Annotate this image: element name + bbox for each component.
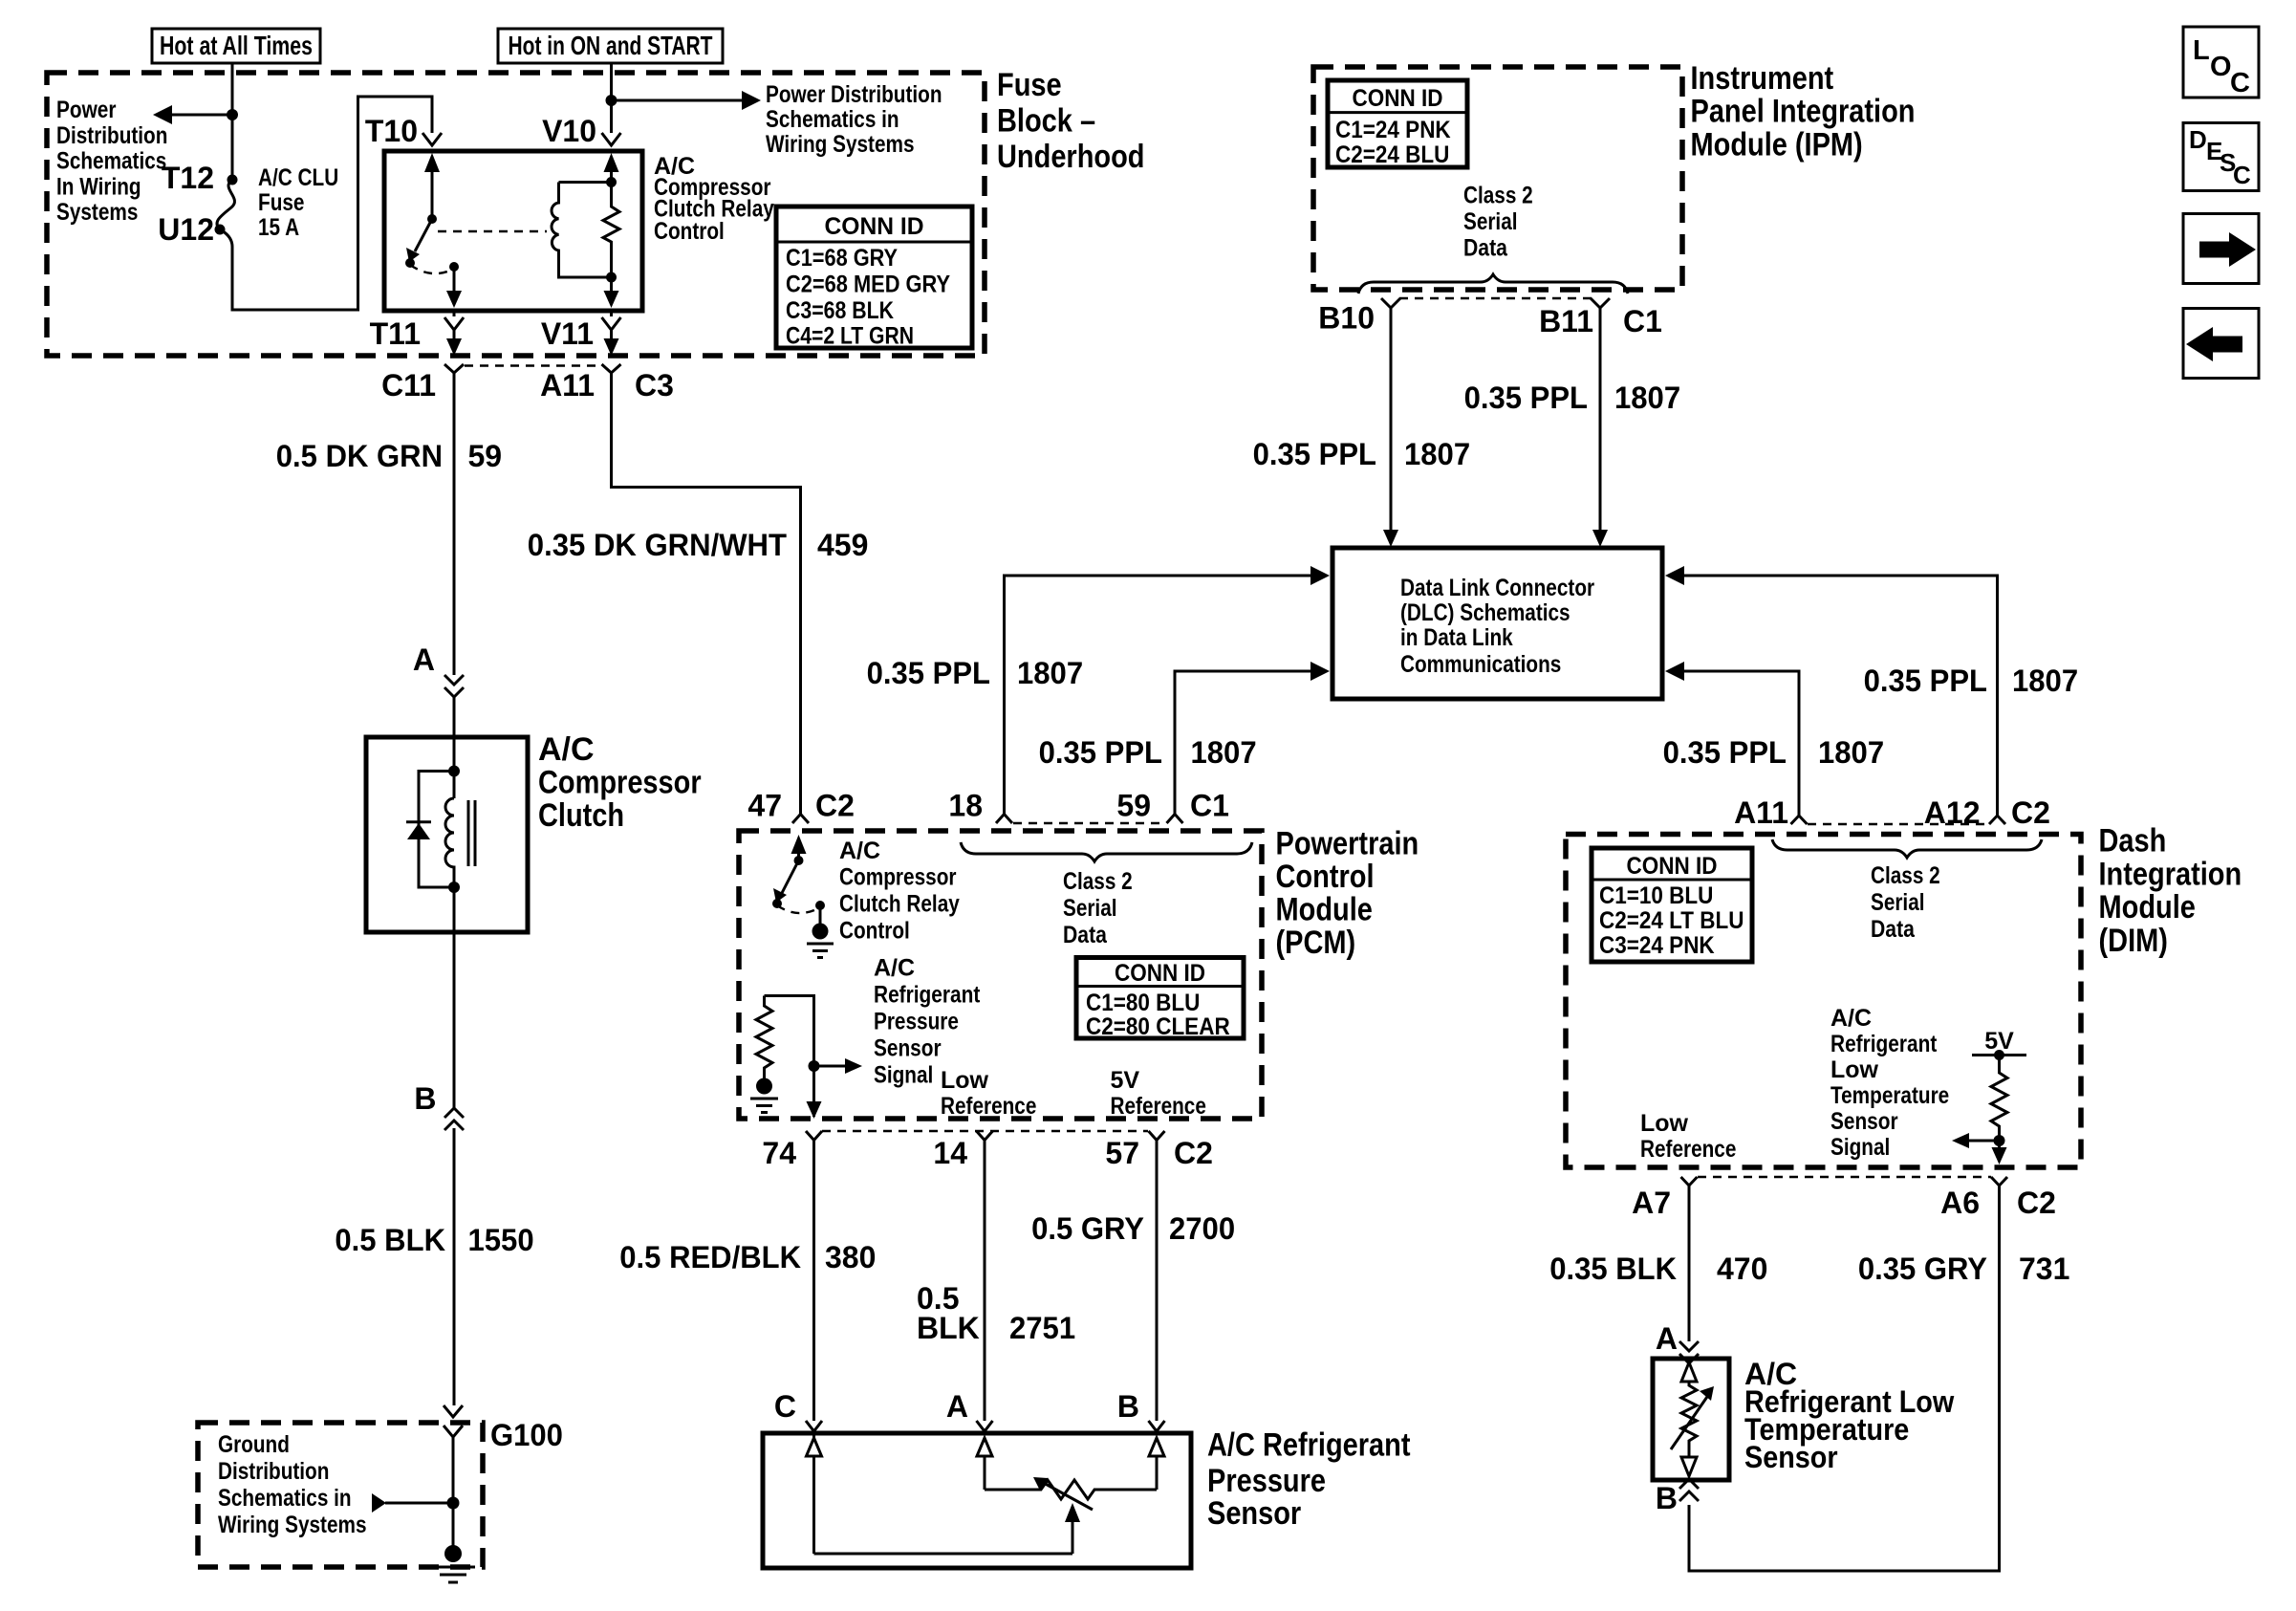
svg-text:Integration: Integration bbox=[2099, 856, 2242, 892]
svg-text:C2=24 BLU: C2=24 BLU bbox=[1335, 142, 1449, 168]
svg-text:CONN ID: CONN ID bbox=[1115, 960, 1205, 987]
svg-text:0.35 DK GRN/WHT: 0.35 DK GRN/WHT bbox=[528, 528, 788, 562]
svg-text:57: 57 bbox=[1105, 1136, 1139, 1170]
svg-text:A11: A11 bbox=[540, 368, 595, 403]
svg-text:C: C bbox=[2230, 68, 2250, 98]
svg-text:Panel Integration: Panel Integration bbox=[1691, 94, 1916, 130]
IPM Class 2 Serial Data text bbox=[1463, 183, 1533, 262]
svg-text:Reference: Reference bbox=[1111, 1093, 1206, 1120]
ground connector G100 chevrons bbox=[444, 1405, 463, 1554]
connector pin B chevron (pressure sensor) bbox=[1149, 1421, 1165, 1431]
svg-text:C2: C2 bbox=[1174, 1136, 1213, 1170]
svg-text:Powertrain: Powertrain bbox=[1276, 826, 1419, 862]
svg-text:BLK: BLK bbox=[917, 1311, 980, 1345]
sensor pin A internal lead bbox=[977, 1438, 992, 1490]
svg-text:A/C: A/C bbox=[839, 838, 880, 864]
module label Instrument Panel Integration Module (IPM) bbox=[1691, 60, 1916, 163]
svg-text:Data: Data bbox=[1063, 922, 1108, 948]
svg-text:A/C Refrigerant: A/C Refrigerant bbox=[1207, 1427, 1411, 1464]
svg-text:Dash: Dash bbox=[2099, 823, 2167, 860]
DIM CONN ID box bbox=[1592, 848, 1752, 962]
connector pin 57 chevron bbox=[1149, 1131, 1165, 1141]
svg-text:0.35 GRY: 0.35 GRY bbox=[1858, 1252, 1987, 1286]
DIM top connector line A11-A12 (thin dashed) bbox=[1808, 823, 1989, 825]
svg-text:2751: 2751 bbox=[1009, 1311, 1075, 1345]
connector pin A6 chevron bbox=[1991, 1177, 2007, 1186]
connector pin 18 chevron bbox=[996, 815, 1012, 824]
svg-text:74: 74 bbox=[762, 1136, 796, 1170]
DIM pull-up resistor bbox=[1991, 1056, 2007, 1137]
svg-text:Serial: Serial bbox=[1463, 208, 1518, 235]
svg-text:Distribution: Distribution bbox=[56, 122, 167, 149]
svg-text:0.35 PPL: 0.35 PPL bbox=[1464, 381, 1588, 415]
connector pin B10 chevron bbox=[1381, 298, 1400, 308]
wire B11 to DLC (0.35 PPL 1807) bbox=[1592, 308, 1608, 547]
svg-text:Serial: Serial bbox=[1063, 895, 1117, 922]
svg-text:0.35 PPL: 0.35 PPL bbox=[1864, 664, 1987, 698]
svg-text:Ground: Ground bbox=[218, 1431, 290, 1458]
svg-text:Sensor: Sensor bbox=[874, 1035, 942, 1062]
inline connector A double chevron (low temp sensor) bbox=[1679, 1341, 1699, 1363]
sensor internal bottom wire bbox=[814, 1553, 1073, 1556]
svg-text:C2: C2 bbox=[815, 789, 855, 823]
svg-text:U12: U12 bbox=[158, 212, 214, 247]
wire A11/C3 to PCM pin 47 (0.35 DK GRN/WHT 459) bbox=[612, 373, 801, 814]
svg-text:731: 731 bbox=[2019, 1252, 2069, 1286]
label A/C Refrigerant Pressure Sensor bbox=[1207, 1427, 1411, 1533]
svg-text:Class 2: Class 2 bbox=[1063, 868, 1133, 895]
connector pin 59 chevron bbox=[1167, 815, 1183, 824]
svg-text:Block –: Block – bbox=[997, 103, 1095, 140]
svg-text:Power Distribution: Power Distribution bbox=[766, 81, 942, 108]
svg-text:59: 59 bbox=[468, 439, 503, 473]
fuse block CONN ID box bbox=[776, 207, 972, 350]
svg-text:C1: C1 bbox=[1623, 304, 1662, 338]
IPM connector line B10-B11 (thin dashed) bbox=[1399, 297, 1592, 299]
A/C Compressor Clutch box bbox=[366, 737, 528, 932]
svg-text:1807: 1807 bbox=[1191, 735, 1257, 770]
connector pin 74 chevron bbox=[806, 1131, 822, 1141]
svg-text:0.35 PPL: 0.35 PPL bbox=[867, 656, 990, 690]
svg-text:Pressure: Pressure bbox=[1207, 1463, 1326, 1499]
svg-text:Reference: Reference bbox=[1640, 1136, 1736, 1163]
A/C Refrigerant Low Temperature Sensor box bbox=[1653, 1359, 1729, 1480]
svg-text:C1=80 BLU: C1=80 BLU bbox=[1086, 990, 1200, 1016]
connector pin V10 chevron bbox=[602, 133, 621, 145]
svg-text:C2=68 MED GRY: C2=68 MED GRY bbox=[786, 272, 950, 298]
svg-text:Data: Data bbox=[1463, 235, 1508, 262]
connector C11 chevron bbox=[444, 364, 464, 373]
relay switch closed-position contact and output leg bbox=[410, 262, 462, 308]
connector pin T11 chevron and exit arrow bbox=[444, 311, 464, 356]
wire DIM pin A12 to DLC (0.35 PPL 1807) bbox=[1665, 566, 1998, 816]
svg-text:A: A bbox=[413, 642, 435, 677]
connector pin 47 chevron bbox=[792, 815, 809, 824]
svg-text:Reference: Reference bbox=[941, 1093, 1036, 1120]
svg-text:0.35 PPL: 0.35 PPL bbox=[1663, 735, 1787, 770]
svg-text:CONN ID: CONN ID bbox=[1353, 85, 1443, 112]
wire 0.5 RED/BLK 380 (pin 74 to sensor C) bbox=[812, 1141, 815, 1422]
svg-text:Wiring Systems: Wiring Systems bbox=[766, 131, 915, 158]
DIM signal node and left arrow bbox=[1952, 1133, 2007, 1165]
svg-text:C1=68 GRY: C1=68 GRY bbox=[786, 245, 898, 272]
text Power Distribution Schematics In Wiring Systems (left) bbox=[56, 97, 167, 226]
svg-text:Sensor: Sensor bbox=[1744, 1440, 1838, 1474]
svg-text:CONN ID: CONN ID bbox=[1627, 853, 1718, 880]
PCM resistor internal ground bbox=[750, 1075, 778, 1113]
icon LOC bbox=[2183, 27, 2259, 98]
svg-text:1807: 1807 bbox=[2012, 664, 2078, 698]
svg-text:A/C: A/C bbox=[874, 955, 915, 982]
svg-text:Distribution: Distribution bbox=[218, 1458, 329, 1485]
svg-text:T11: T11 bbox=[370, 316, 421, 351]
svg-text:A/C: A/C bbox=[1830, 1005, 1872, 1032]
icon forward arrow bbox=[2183, 214, 2259, 284]
svg-text:Communications: Communications bbox=[1400, 651, 1561, 678]
svg-text:Compressor: Compressor bbox=[538, 765, 702, 801]
relay mechanical link (dashed) bbox=[438, 230, 547, 232]
svg-text:Module (IPM): Module (IPM) bbox=[1691, 126, 1863, 163]
inline connector B double chevron (low temp sensor) bbox=[1679, 1479, 1699, 1501]
svg-text:Hot at All Times: Hot at All Times bbox=[160, 31, 313, 60]
junction node V10 bbox=[606, 95, 617, 106]
svg-text:Class 2: Class 2 bbox=[1871, 862, 1940, 889]
svg-text:T12: T12 bbox=[162, 161, 214, 195]
sensor pin B internal lead bbox=[1149, 1438, 1164, 1490]
module label Powertrain Control Module (PCM) bbox=[1276, 826, 1419, 962]
relay coil branch top leg with up arrow bbox=[604, 153, 619, 187]
PCM driver internal ground bbox=[807, 905, 834, 958]
svg-text:Control: Control bbox=[1276, 859, 1375, 895]
svg-text:C1=10 BLU: C1=10 BLU bbox=[1599, 882, 1713, 909]
clutch coil core bars bbox=[468, 800, 475, 866]
svg-text:C3: C3 bbox=[635, 368, 674, 403]
label Low Reference (DIM) bbox=[1640, 1110, 1736, 1163]
relay switch common leg with up arrow bbox=[424, 153, 440, 224]
wire pin 74 inside PCM (sensor signal) bbox=[765, 996, 863, 1120]
DIM Class 2 Serial Data text bbox=[1871, 862, 1940, 943]
svg-text:A12: A12 bbox=[1924, 795, 1981, 830]
svg-text:In Wiring: In Wiring bbox=[56, 173, 141, 200]
svg-text:5V: 5V bbox=[1111, 1067, 1140, 1094]
svg-text:Schematics: Schematics bbox=[56, 148, 166, 175]
svg-text:Sensor: Sensor bbox=[1207, 1495, 1301, 1532]
svg-text:V11: V11 bbox=[541, 316, 594, 351]
svg-text:0.35 PPL: 0.35 PPL bbox=[1039, 735, 1162, 770]
wire battery feed from Hot at All Times bbox=[231, 63, 234, 180]
svg-text:C: C bbox=[774, 1389, 796, 1424]
svg-text:Schematics in: Schematics in bbox=[766, 106, 899, 133]
svg-text:C2=24 LT BLU: C2=24 LT BLU bbox=[1599, 907, 1744, 934]
connector line 18-59 (thin dashed) bbox=[1013, 822, 1165, 824]
PCM relay driver switch bbox=[772, 835, 825, 913]
connector A11 chevron bbox=[602, 364, 621, 373]
svg-text:B11: B11 bbox=[1539, 304, 1593, 338]
module label Fuse Block - Underhood bbox=[997, 67, 1145, 175]
svg-text:1807: 1807 bbox=[1614, 381, 1680, 415]
label A/C Refrigerant Low Temperature Sensor Signal (DIM) bbox=[1830, 1005, 1949, 1161]
svg-text:Signal: Signal bbox=[874, 1062, 933, 1089]
svg-text:A/C: A/C bbox=[538, 731, 595, 768]
svg-text:C2=80 CLEAR: C2=80 CLEAR bbox=[1086, 1013, 1230, 1040]
clutch coil feed wire and node bbox=[448, 737, 460, 798]
wire 0.35 GRY 731 (A6 to sensor B loop) bbox=[1689, 1186, 2000, 1571]
module label Dash Integration Module (DIM) bbox=[2099, 823, 2242, 960]
svg-text:Instrument: Instrument bbox=[1691, 60, 1834, 97]
svg-text:C: C bbox=[2233, 161, 2251, 189]
inline connector B double chevron bbox=[444, 1108, 464, 1405]
svg-text:Low: Low bbox=[1640, 1110, 1689, 1137]
IPM brace (class 2 serial data bus) bbox=[1358, 274, 1628, 294]
label A/C Refrigerant Pressure Sensor Signal bbox=[874, 955, 981, 1089]
svg-text:Hot in ON and START: Hot in ON and START bbox=[509, 31, 713, 60]
svg-text:A/C CLU: A/C CLU bbox=[258, 164, 338, 191]
off-page arrow to Power Distribution (left) bbox=[153, 105, 232, 124]
svg-text:1807: 1807 bbox=[1017, 656, 1083, 690]
DIM dashed outline (Dash Integration Module) bbox=[1566, 835, 2081, 1168]
text Ground Distribution Schematics in Wiring Systems bbox=[218, 1431, 367, 1538]
wire 0.5 DK GRN 59 (C11 to A/C compressor clutch) bbox=[453, 373, 456, 675]
svg-text:CONN ID: CONN ID bbox=[825, 213, 924, 240]
svg-text:15 A: 15 A bbox=[258, 214, 299, 241]
fuse A/C CLU 15 A (element) bbox=[215, 175, 238, 248]
svg-text:C1=24 PNK: C1=24 PNK bbox=[1335, 117, 1451, 143]
connector pin A11 chevron (DIM) bbox=[1791, 816, 1808, 824]
relay K: A/C Compressor Clutch Relay box bbox=[384, 151, 642, 311]
svg-text:0.5 BLK: 0.5 BLK bbox=[335, 1223, 445, 1257]
svg-text:Serial: Serial bbox=[1871, 889, 1925, 916]
PCM bottom connector line 74-14-57 (thin dashed) bbox=[822, 1130, 1148, 1132]
off-page arrow to Power Distribution (right) bbox=[612, 91, 762, 110]
svg-text:Class 2: Class 2 bbox=[1463, 183, 1533, 209]
wire DIM pin A11 to DLC (0.35 PPL 1807) bbox=[1665, 662, 1799, 816]
PCM Class 2 Serial Data text bbox=[1063, 868, 1133, 948]
svg-text:A: A bbox=[1656, 1321, 1678, 1356]
svg-text:C3=24 PNK: C3=24 PNK bbox=[1599, 932, 1715, 959]
svg-text:Underhood: Underhood bbox=[997, 139, 1145, 175]
svg-text:459: 459 bbox=[817, 528, 868, 562]
relay coil winding bbox=[552, 183, 611, 278]
svg-text:Control: Control bbox=[654, 218, 725, 245]
svg-text:Data: Data bbox=[1871, 916, 1916, 943]
svg-text:Low: Low bbox=[1830, 1056, 1879, 1083]
svg-text:0.5 RED/BLK: 0.5 RED/BLK bbox=[619, 1240, 801, 1274]
inline connector A double chevron bbox=[444, 675, 464, 737]
svg-text:Fuse: Fuse bbox=[258, 189, 305, 216]
svg-text:O: O bbox=[2210, 52, 2232, 82]
svg-text:(DIM): (DIM) bbox=[2099, 923, 2168, 959]
wire 0.35 BLK 470 (A7 to low temp sensor A) bbox=[1688, 1186, 1691, 1341]
svg-text:B: B bbox=[1117, 1389, 1139, 1424]
label A/C CLU Fuse 15 A bbox=[258, 164, 338, 241]
svg-text:L: L bbox=[2193, 35, 2210, 66]
svg-text:Power: Power bbox=[56, 97, 117, 123]
svg-text:Pressure: Pressure bbox=[874, 1009, 959, 1035]
svg-text:380: 380 bbox=[825, 1240, 876, 1274]
svg-text:A: A bbox=[946, 1389, 968, 1424]
wire 0.5 BLK 2751 (pin 14 to sensor A) bbox=[984, 1141, 986, 1422]
icon DESC bbox=[2183, 123, 2259, 191]
svg-text:Fuse: Fuse bbox=[997, 67, 1062, 103]
svg-text:C4=2 LT GRN: C4=2 LT GRN bbox=[786, 323, 914, 350]
svg-text:V10: V10 bbox=[542, 114, 596, 148]
clutch coil winding bbox=[445, 798, 454, 887]
svg-text:Module: Module bbox=[1276, 892, 1373, 928]
connector pin A12 chevron (DIM) bbox=[1989, 816, 2005, 824]
svg-text:Wiring Systems: Wiring Systems bbox=[218, 1512, 367, 1538]
clutch coil bottom node bbox=[448, 882, 460, 893]
potentiometer element (pressure sensor) bbox=[985, 1477, 1157, 1510]
icon back arrow bbox=[2183, 309, 2259, 379]
svg-text:0.5 GRY: 0.5 GRY bbox=[1031, 1211, 1144, 1246]
5V supply symbol (DIM) bbox=[1972, 1028, 2026, 1060]
svg-text:Temperature: Temperature bbox=[1830, 1082, 1949, 1109]
svg-text:C2: C2 bbox=[2017, 1186, 2056, 1220]
svg-text:Low: Low bbox=[941, 1067, 989, 1094]
svg-text:59: 59 bbox=[1116, 789, 1151, 823]
wire B10 to DLC (0.35 PPL 1807) bbox=[1383, 308, 1398, 547]
svg-text:2700: 2700 bbox=[1169, 1211, 1235, 1246]
flag box "Hot in ON and START" bbox=[498, 29, 723, 63]
connector pin A7 chevron bbox=[1681, 1177, 1698, 1186]
PCM pressure sensor pull-up resistor bbox=[756, 996, 772, 1076]
text Power Distribution Schematics in Wiring Systems (right) bbox=[766, 81, 942, 158]
wire PCM pin 59 to DLC (class 2 serial data) bbox=[1175, 662, 1330, 815]
flag box "Hot at All Times" bbox=[152, 29, 320, 63]
svg-text:C11: C11 bbox=[381, 368, 436, 403]
svg-text:(DLC) Schematics: (DLC) Schematics bbox=[1400, 599, 1570, 626]
connector pin B11 chevron bbox=[1591, 298, 1610, 308]
svg-text:Compressor: Compressor bbox=[839, 864, 957, 891]
label 0.5 BLK (two lines) bbox=[917, 1281, 980, 1345]
svg-text:470: 470 bbox=[1717, 1252, 1767, 1286]
label A/C Refrigerant Low Temperature Sensor bbox=[1744, 1357, 1954, 1474]
svg-text:Systems: Systems bbox=[56, 199, 138, 226]
label A/C Compressor Clutch bbox=[538, 731, 702, 834]
svg-text:1550: 1550 bbox=[468, 1223, 534, 1257]
svg-text:B: B bbox=[1656, 1481, 1678, 1515]
fuse block dashed outline (Fuse Block - Underhood) bbox=[47, 73, 985, 356]
PCM CONN ID box bbox=[1076, 958, 1244, 1041]
ground reference arrow into G100 wire bbox=[372, 1493, 460, 1513]
svg-text:B10: B10 bbox=[1318, 301, 1375, 336]
svg-text:Sensor: Sensor bbox=[1830, 1108, 1898, 1135]
svg-text:A11: A11 bbox=[1734, 795, 1788, 830]
svg-text:B: B bbox=[414, 1081, 436, 1116]
wire clutch to B connector bbox=[453, 887, 456, 1109]
svg-text:14: 14 bbox=[933, 1136, 967, 1170]
connector pin T10 chevron bbox=[422, 133, 442, 145]
svg-text:G100: G100 bbox=[490, 1418, 563, 1452]
DIM brace (class 2 serial data bus) bbox=[1772, 839, 2042, 858]
wire 0.5 GRY 2700 (pin 57 to sensor B) bbox=[1156, 1141, 1159, 1422]
svg-text:0.5 DK GRN: 0.5 DK GRN bbox=[276, 439, 443, 473]
potentiometer wiper arrow bbox=[1065, 1503, 1080, 1554]
svg-text:Data Link Connector: Data Link Connector bbox=[1400, 575, 1594, 601]
svg-text:Clutch: Clutch bbox=[538, 797, 624, 834]
wire PCM pin 18 to DLC (class 2 serial data) bbox=[1005, 566, 1331, 815]
thermistor element (low temp sensor) bbox=[1671, 1362, 1714, 1476]
wire fuse output to relay pin T10 bbox=[232, 97, 432, 310]
svg-text:Refrigerant: Refrigerant bbox=[1830, 1031, 1938, 1057]
svg-text:(PCM): (PCM) bbox=[1276, 925, 1356, 961]
svg-text:18: 18 bbox=[948, 789, 983, 823]
svg-text:1807: 1807 bbox=[1818, 735, 1884, 770]
svg-text:Signal: Signal bbox=[1830, 1134, 1890, 1161]
ground symbol G100 bbox=[431, 1545, 475, 1582]
svg-text:C1: C1 bbox=[1190, 789, 1229, 823]
IPM dashed outline (Instrument Panel Integration Module) bbox=[1313, 67, 1682, 290]
junction node on battery feed bbox=[227, 109, 238, 120]
svg-text:Schematics in: Schematics in bbox=[218, 1485, 352, 1512]
DIM bottom connector line A7-A6 (thin dashed) bbox=[1698, 1176, 1991, 1178]
connector pin V11 chevron and exit arrow bbox=[602, 311, 621, 356]
IPM CONN ID box bbox=[1328, 80, 1467, 168]
wire V10 feed from Hot in ON and START bbox=[610, 63, 613, 133]
svg-text:in Data Link: in Data Link bbox=[1400, 624, 1513, 651]
PCM brace (class 2 serial data bus) bbox=[961, 842, 1252, 861]
sensor pin C internal lead bbox=[807, 1433, 822, 1554]
svg-text:47: 47 bbox=[747, 789, 782, 823]
svg-text:Refrigerant: Refrigerant bbox=[874, 982, 981, 1009]
svg-text:Control: Control bbox=[839, 918, 910, 945]
connector pin C chevron (pressure sensor) bbox=[806, 1421, 822, 1431]
connector pin 14 chevron bbox=[977, 1131, 993, 1141]
svg-text:A7: A7 bbox=[1632, 1186, 1671, 1220]
ground distribution dashed box bbox=[198, 1423, 483, 1567]
label 5V Reference (PCM) bbox=[1111, 1067, 1206, 1120]
svg-text:C3=68 BLK: C3=68 BLK bbox=[786, 297, 894, 324]
A/C Refrigerant Pressure Sensor box bbox=[763, 1433, 1191, 1568]
svg-text:0.35 BLK: 0.35 BLK bbox=[1549, 1252, 1677, 1286]
DLC text bbox=[1400, 575, 1594, 678]
connector pin A chevron (pressure sensor) bbox=[977, 1421, 993, 1431]
relay resistor (parallel with coil) bbox=[603, 183, 619, 309]
svg-text:0.35 PPL: 0.35 PPL bbox=[1253, 437, 1376, 471]
relay switch moving contact bbox=[405, 219, 432, 268]
connector line C11-A11 (thin dashed) bbox=[465, 364, 601, 366]
PCM dashed outline (Powertrain Control Module) bbox=[739, 831, 1262, 1119]
svg-text:C2: C2 bbox=[2011, 795, 2050, 830]
label Low Reference (PCM) bbox=[941, 1067, 1036, 1120]
label A/C Compressor Clutch Relay Control (PCM) bbox=[839, 838, 960, 945]
svg-text:Module: Module bbox=[2099, 889, 2196, 925]
svg-text:1807: 1807 bbox=[1404, 437, 1470, 471]
svg-text:Clutch Relay: Clutch Relay bbox=[839, 891, 960, 918]
label A/C Compressor Clutch Relay Control (fuse block) bbox=[654, 153, 774, 245]
DLC box (Data Link Connector) bbox=[1332, 548, 1662, 699]
svg-text:A6: A6 bbox=[1940, 1186, 1980, 1220]
clutch suppression diode branch bbox=[406, 772, 454, 888]
svg-text:T10: T10 bbox=[365, 114, 418, 148]
svg-text:D: D bbox=[2189, 125, 2207, 154]
